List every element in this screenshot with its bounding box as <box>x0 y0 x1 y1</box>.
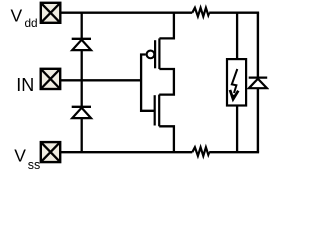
wire: IN horizontal (pad to gate bus) <box>60 79 141 81</box>
wire: right branch vertical, rail corner to D3 <box>257 13 259 78</box>
diode D1 (IN to Vdd clamp) <box>72 39 91 50</box>
svg-text:V: V <box>10 6 22 26</box>
pad VDD (bond pad with X) <box>41 3 61 23</box>
pad IN (bond pad with X) <box>41 69 61 89</box>
wire: clamp branch vertical, rail to D1 <box>81 13 83 39</box>
label Vss <box>14 146 40 173</box>
wire: right branch vertical, D3 to Vss rail <box>257 88 259 152</box>
transistor M1 PMOS: gate bubble <box>147 51 155 59</box>
svg-text:V: V <box>14 146 26 166</box>
pad VSS (bond pad with X) <box>41 142 60 162</box>
svg-text:dd: dd <box>25 16 38 30</box>
transistor M1 PMOS: source stub to Vdd rail <box>159 13 174 39</box>
resistor R2 (bottom rail) <box>192 147 209 156</box>
wire: clamp branch vertical, D2 to Vss rail <box>81 118 83 152</box>
resistor R1 (top rail) <box>192 8 209 17</box>
wire: clamp branch vertical, D1 to D2 (crosses IN node) <box>81 50 83 107</box>
diode D2 (Vss to IN clamp) <box>72 107 91 118</box>
wire: top Vdd rail (pad to right corner, broken by R1) <box>60 11 259 13</box>
wire: zap branch, rail to box top <box>236 13 238 59</box>
wire: inverter output node (PMOS drain to NMOS drain) <box>159 69 174 95</box>
label Vdd <box>10 6 37 30</box>
transistor M2 NMOS: gate bar <box>154 95 156 125</box>
wire: zap branch, box bottom to Vss rail <box>236 106 238 153</box>
svg-text:IN: IN <box>16 75 34 95</box>
diode D3 (power clamp) <box>249 78 268 89</box>
transistor M2 NMOS: channel bar <box>158 95 160 127</box>
wire: gate bus (IN to both gates) <box>141 55 155 111</box>
ESD zap bolt arrow <box>230 69 238 100</box>
ESD zap source box <box>227 59 246 105</box>
wire: bottom Vss rail (pad to right corner, broken by R2) <box>60 151 259 153</box>
svg-text:ss: ss <box>28 158 41 172</box>
transistor M1 PMOS: gate bar <box>154 40 156 68</box>
transistor M1 PMOS: channel bar <box>158 38 160 69</box>
transistor M2 NMOS: source stub to Vss rail <box>159 126 174 152</box>
